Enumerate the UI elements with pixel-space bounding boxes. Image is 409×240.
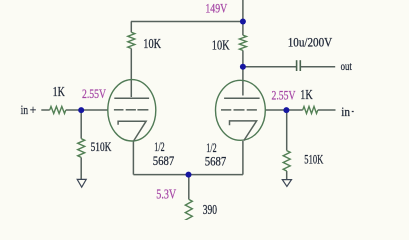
resistor right 10K [239,35,246,50]
wire in+ to resistor R1 [41,109,49,111]
node tail junction dot [186,172,192,178]
svg-text:5687: 5687 [205,154,227,169]
wire tail junction to 390 [188,175,190,200]
svg-text:10K: 10K [143,36,161,51]
triode V1a cathode [118,121,146,140]
node junction dot anode/cap [240,64,246,70]
svg-text:in: in [341,104,350,119]
resistor left 10K [128,32,135,48]
triode V1b plate [224,97,260,99]
svg-text:149V: 149V [205,2,227,16]
wire left branch top (rail to resistor) [130,22,132,33]
resistor right 510K [283,151,290,171]
svg-text:5687: 5687 [153,153,175,168]
resistor left 510K [78,139,85,158]
wire bottom rail [133,174,243,176]
svg-text:390: 390 [203,202,217,217]
svg-text:5.3V: 5.3V [156,187,176,202]
node B dot (in-) [283,107,289,113]
wire right branch (junction to resistor) [242,22,244,36]
ground right [282,180,291,187]
svg-text:1K: 1K [300,87,313,102]
wire left cathode lead [132,141,134,175]
triode V1a grid (dashed) [114,109,148,111]
svg-text:2.55V: 2.55V [82,86,106,101]
capacitor C1 plates [297,60,301,71]
svg-text:out: out [341,61,353,73]
triode V1b grid (dashed) [221,109,257,111]
wire left 510K to ground [80,157,82,179]
node A dot (in+) [78,107,84,113]
resistor left 1K [50,107,66,114]
svg-text:-: - [352,103,354,118]
resistor right 1K [303,107,318,114]
resistor tail 390 [185,199,192,222]
svg-text:10u/200V: 10u/200V [288,35,333,49]
ground left [77,179,86,187]
wire right anode lead (resistor to node to plate) [242,50,244,95]
wire right 1K to in- [318,109,336,111]
wire anode node to capacitor [243,66,296,68]
wire top rail [131,21,243,23]
svg-text:10K: 10K [212,38,230,53]
wire right grid lead to node B [265,109,286,111]
svg-text:510K: 510K [91,140,112,154]
triode V1a plate [114,97,149,99]
wire node B down to right 510K [286,110,288,151]
node junction dot top rail [240,19,246,25]
triode V1a envelope [108,80,156,141]
svg-text:510K: 510K [304,153,323,167]
wire node A down to left 510K [80,110,82,139]
wire node A to left grid [81,109,108,111]
wire capacitor to out [301,66,335,68]
svg-text:+: + [30,102,37,117]
wire left anode lead (resistor to plate) [130,49,132,98]
triode V1b envelope [216,80,266,140]
svg-text:1K: 1K [53,84,65,99]
wire right 510K to ground [286,171,288,180]
svg-text:in: in [21,102,29,117]
triode V1b cathode [230,121,257,141]
wire right cathode lead [242,141,244,175]
wire node B to right 1K [286,109,302,111]
svg-text:2.55V: 2.55V [272,88,296,103]
wire B+ stub from top edge [242,0,244,22]
wire R1 to node A [66,109,81,111]
